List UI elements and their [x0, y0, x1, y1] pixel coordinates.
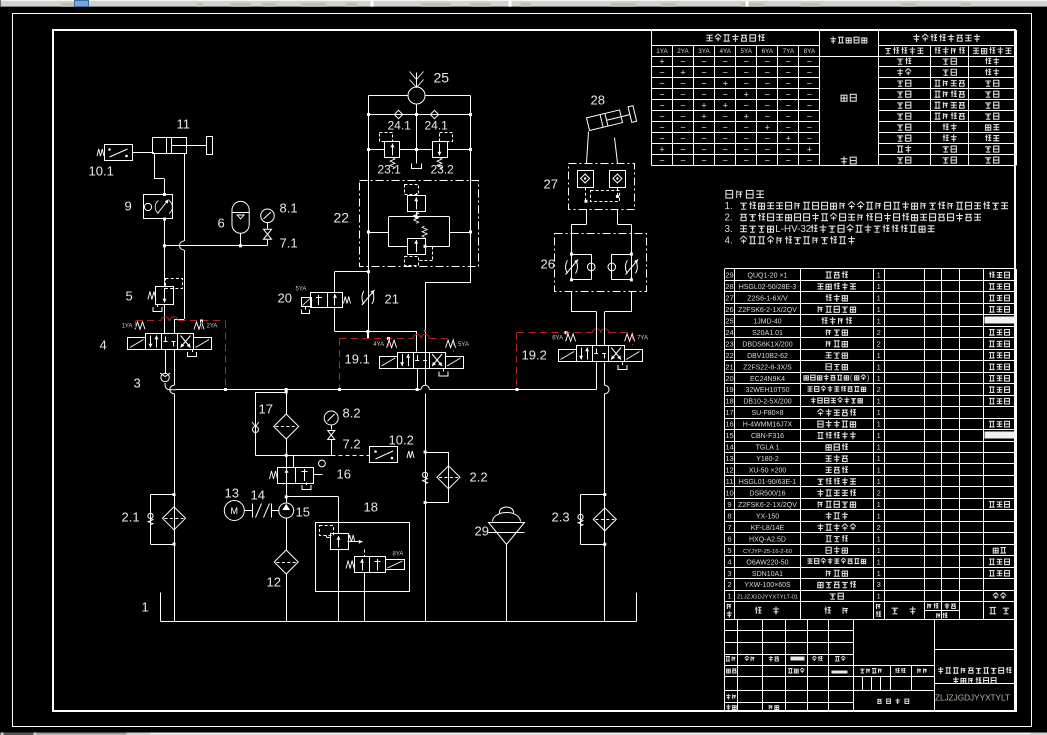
wire box22 right down to 2.2	[470, 267, 472, 283]
svg-text:−: −	[701, 57, 706, 67]
reducing valve in 18	[331, 534, 349, 550]
svg-text:YXW-100×60S: YXW-100×60S	[744, 582, 791, 589]
accumulator 6	[232, 201, 249, 233]
svg-text:1: 1	[877, 454, 881, 463]
gauge 8.2	[324, 411, 338, 425]
hydraulic motor 25	[408, 87, 425, 104]
directional valve 19.2	[577, 346, 625, 362]
svg-text:23.1: 23.1	[378, 163, 402, 177]
gauge valve 7.1	[267, 223, 269, 229]
bridge loop wires	[389, 216, 450, 218]
throttle valve 21	[362, 291, 364, 304]
svg-text:1: 1	[877, 408, 881, 417]
svg-text:8YA: 8YA	[393, 552, 404, 558]
wire valve4 B port down to tank via 2.1	[174, 350, 176, 386]
svg-text:−: −	[659, 134, 664, 144]
svg-text:1: 1	[877, 305, 881, 314]
pump 15	[279, 503, 294, 518]
bridge in box 22: lower relief	[408, 239, 426, 255]
svg-text:21: 21	[385, 292, 399, 307]
svg-text:−: −	[680, 123, 685, 133]
svg-text:2: 2	[877, 523, 881, 532]
svg-text:1.: 1.	[725, 201, 733, 212]
svg-text:−: −	[744, 57, 749, 67]
BOM parts list table	[725, 268, 1017, 270]
filter 2.2 with bypass	[424, 451, 427, 454]
red dashed box 19.2	[517, 332, 593, 334]
svg-text:M: M	[231, 506, 239, 516]
filter 12	[286, 518, 288, 550]
svg-text:23: 23	[725, 339, 733, 348]
svg-text:−: −	[786, 156, 791, 166]
svg-text:1: 1	[877, 294, 881, 303]
svg-text:2.2: 2.2	[470, 470, 488, 485]
svg-text:6: 6	[218, 216, 225, 231]
svg-text:1: 1	[877, 316, 881, 325]
svg-text:+: +	[723, 101, 728, 111]
wire across to 19.1 riser	[369, 331, 418, 333]
svg-text:Z2FSK6-2-1X/2QV: Z2FSK6-2-1X/2QV	[738, 502, 797, 509]
technical requirements text	[726, 190, 733, 198]
svg-text:1: 1	[877, 362, 881, 371]
svg-text:1: 1	[877, 557, 881, 566]
svg-text:5: 5	[727, 546, 731, 555]
svg-text:2: 2	[877, 339, 881, 348]
svg-text:O6AW220-50: O6AW220-50	[746, 559, 788, 566]
svg-text:Z2S6-1-6X/V: Z2S6-1-6X/V	[747, 296, 788, 303]
svg-text:−: −	[701, 156, 706, 166]
svg-text:20: 20	[725, 374, 733, 383]
svg-text:3: 3	[877, 580, 881, 589]
check-throttle valve 9	[144, 195, 173, 219]
svg-text:−: −	[723, 156, 728, 166]
svg-text:−: −	[659, 79, 664, 89]
svg-text:−: −	[786, 101, 791, 111]
svg-text:−: −	[744, 134, 749, 144]
svg-text:−: −	[744, 123, 749, 133]
svg-text:−: −	[701, 123, 706, 133]
svg-text:−: −	[765, 79, 770, 89]
svg-text:−: −	[701, 134, 706, 144]
left throttle-check unit	[570, 253, 573, 256]
dashdot box 22	[360, 181, 479, 267]
svg-text:15: 15	[296, 505, 310, 520]
svg-text:16: 16	[337, 467, 351, 482]
pressure switch 10.2	[370, 447, 398, 463]
check valve 24.1 left	[394, 110, 402, 118]
svg-text:2: 2	[877, 328, 881, 337]
svg-text:−: −	[807, 134, 812, 144]
svg-text:4YA: 4YA	[373, 342, 384, 348]
svg-text:1: 1	[142, 600, 149, 615]
svg-text:TGLA 1: TGLA 1	[756, 445, 780, 452]
svg-text:23.2: 23.2	[431, 163, 455, 177]
bypass loop around valve 20	[335, 271, 369, 273]
svg-text:−: −	[701, 145, 706, 155]
svg-text:1: 1	[877, 397, 881, 406]
svg-text:5YA: 5YA	[458, 342, 469, 348]
svg-text:14: 14	[251, 488, 265, 503]
svg-text:2: 2	[727, 580, 731, 589]
svg-text:21: 21	[725, 362, 733, 371]
electric motor 13	[224, 501, 244, 521]
svg-text:1: 1	[877, 511, 881, 520]
svg-text:5YA: 5YA	[740, 48, 752, 55]
svg-text:SDN10A1: SDN10A1	[752, 571, 783, 578]
wire motor loop top	[369, 95, 409, 97]
svg-text:DBV10B2-62: DBV10B2-62	[747, 353, 788, 360]
svg-text:18: 18	[364, 500, 378, 515]
svg-text:+: +	[659, 57, 664, 67]
throttle check block 26	[555, 234, 647, 292]
pressure switch 10.1	[105, 145, 133, 161]
svg-text:HSGL01-90/63E-1: HSGL01-90/63E-1	[739, 479, 797, 486]
svg-text:27: 27	[544, 177, 558, 192]
svg-text:−: −	[744, 79, 749, 89]
svg-text:QUQ1-20 ×1: QUQ1-20 ×1	[748, 273, 788, 280]
svg-text:+: +	[765, 123, 770, 133]
svg-text:CYJYP-25-16-2-60: CYJYP-25-16-2-60	[743, 549, 792, 555]
svg-text:+: +	[786, 134, 791, 144]
svg-text:−: −	[680, 90, 685, 100]
svg-text:): )	[867, 374, 869, 382]
svg-text:20: 20	[278, 291, 292, 306]
gauge 8.1	[261, 209, 275, 223]
svg-text:−: −	[765, 57, 770, 67]
buffer relief valve 23.1	[385, 142, 400, 158]
svg-text:1: 1	[877, 546, 881, 555]
svg-text:32WEH10T50: 32WEH10T50	[746, 387, 790, 394]
svg-text:8.2: 8.2	[343, 406, 361, 421]
svg-text:7YA: 7YA	[637, 336, 648, 342]
svg-text:−: −	[786, 79, 791, 89]
wire: tank bottom line	[161, 621, 637, 623]
svg-text:19.1: 19.1	[345, 352, 370, 367]
svg-text:19.2: 19.2	[522, 348, 547, 363]
hydraulic lock 27	[569, 164, 635, 210]
svg-text:−: −	[744, 156, 749, 166]
svg-text:−: −	[786, 123, 791, 133]
svg-text:ZLJZJGDJYYXTYLT: ZLJZJGDJYYXTYLT	[935, 694, 1010, 703]
svg-text:H-4WMM16J7X: H-4WMM16J7X	[743, 422, 793, 429]
wire 19.2 T down to 2.3	[604, 363, 606, 386]
gauge valve 7.2	[331, 425, 333, 430]
svg-text:−: −	[765, 134, 770, 144]
svg-text:+: +	[701, 112, 706, 122]
svg-text:17: 17	[259, 402, 273, 417]
svg-text:−: −	[701, 68, 706, 78]
svg-text:−: −	[701, 90, 706, 100]
svg-text:2: 2	[877, 385, 881, 394]
wire 9 down to node	[164, 219, 166, 287]
svg-text:1: 1	[727, 592, 731, 601]
svg-text:−: −	[680, 57, 685, 67]
svg-text:1: 1	[877, 282, 881, 291]
svg-text:−: −	[807, 68, 812, 78]
svg-text:HSGL02-50/28E-3: HSGL02-50/28E-3	[739, 284, 797, 291]
svg-text:EC24N9K4: EC24N9K4	[750, 376, 785, 383]
svg-text:+: +	[744, 112, 749, 122]
svg-text:14: 14	[725, 443, 733, 452]
svg-text:Y180-2: Y180-2	[756, 456, 779, 463]
node on bus at filter17	[285, 388, 288, 391]
svg-text:−: −	[680, 79, 685, 89]
svg-text:24.1: 24.1	[388, 119, 412, 133]
svg-text:1: 1	[877, 477, 881, 486]
svg-text:−: −	[786, 145, 791, 155]
check valve 24.1 right	[430, 110, 438, 118]
svg-text:Z2FS22-8-3X/S: Z2FS22-8-3X/S	[743, 364, 792, 371]
directional valve 4	[146, 334, 194, 350]
svg-text:−: −	[680, 145, 685, 155]
svg-text:6: 6	[727, 534, 731, 543]
svg-text:−: −	[659, 68, 664, 78]
svg-text:4: 4	[727, 557, 731, 566]
tank under valve4	[192, 350, 194, 353]
svg-text:SU-F80×8: SU-F80×8	[751, 410, 783, 417]
svg-text:+: +	[701, 101, 706, 111]
svg-text:DBDS6K1X/200: DBDS6K1X/200	[742, 341, 792, 348]
svg-text:1: 1	[877, 374, 881, 383]
svg-text:1: 1	[877, 271, 881, 280]
tank under valve5	[157, 305, 159, 308]
svg-text:2.3: 2.3	[552, 510, 570, 525]
red dashed box 19.1	[340, 338, 413, 340]
svg-text:7.2: 7.2	[343, 437, 361, 452]
svg-text:12: 12	[725, 466, 733, 475]
filter 17 with bypass check	[286, 439, 288, 456]
svg-text:ZLJZJGDJYYXTYLT-01: ZLJZJGDJYYXTYLT-01	[737, 595, 798, 601]
svg-text:−: −	[786, 90, 791, 100]
svg-text:11: 11	[726, 477, 734, 486]
wires 28 to lock 27	[587, 132, 589, 164]
svg-text:28: 28	[591, 93, 605, 108]
svg-text:1: 1	[877, 534, 881, 543]
svg-text:Z2FSK6-2-1X/2QV: Z2FSK6-2-1X/2QV	[738, 307, 797, 314]
buffer relief valve 23.2	[433, 142, 448, 158]
svg-text:9: 9	[125, 199, 132, 214]
svg-text:1: 1	[877, 351, 881, 360]
wires 26 to 19.2	[571, 292, 573, 312]
svg-text:−: −	[765, 156, 770, 166]
svg-text:−: −	[765, 90, 770, 100]
tank under 19.1	[443, 369, 445, 372]
svg-text:13: 13	[225, 486, 239, 501]
wire to block 18	[287, 496, 339, 498]
title block	[725, 620, 1017, 712]
wire cylinder right port down	[184, 154, 186, 242]
svg-text:−: −	[659, 156, 664, 166]
svg-text:−: −	[807, 123, 812, 133]
red dashed box around valve 4	[136, 320, 161, 322]
toolbar icon	[75, 1, 89, 7]
svg-text:7: 7	[727, 523, 731, 532]
wire pump line horizontal	[287, 455, 332, 457]
svg-text:−: −	[723, 123, 728, 133]
dashed pilot to 10.2	[332, 455, 370, 457]
svg-text:22: 22	[725, 351, 733, 360]
svg-text:1YA: 1YA	[656, 48, 668, 55]
wire box22 left down to valve20	[368, 267, 370, 339]
manual unload valve 16	[293, 456, 295, 468]
svg-text:−: −	[765, 68, 770, 78]
svg-text:17: 17	[725, 408, 733, 417]
svg-text:S20A1.01: S20A1.01	[752, 330, 783, 337]
wire cylinder left port down	[154, 154, 156, 180]
wire motor loop row2	[369, 114, 471, 116]
svg-text:2.1: 2.1	[122, 510, 140, 525]
svg-text:−: −	[701, 79, 706, 89]
svg-text:8: 8	[727, 511, 731, 520]
svg-text:+: +	[723, 79, 728, 89]
svg-text:−: −	[765, 101, 770, 111]
svg-text:6YA: 6YA	[762, 48, 774, 55]
svg-text:3.: 3.	[725, 224, 733, 235]
svg-text:DB10-2-5X/200: DB10-2-5X/200	[743, 399, 791, 406]
svg-text:−: −	[807, 79, 812, 89]
svg-text:−: −	[765, 112, 770, 122]
filter 2.1 with bypass	[173, 493, 176, 496]
svg-text:2YA: 2YA	[677, 48, 689, 55]
svg-text:9: 9	[727, 500, 731, 509]
wire: valve4 outlet arc to bus	[165, 383, 176, 390]
wire motor loop row3	[369, 149, 385, 151]
svg-text:−: −	[680, 134, 685, 144]
wires in 18 to tank	[338, 550, 340, 591]
svg-text:1JMD-40: 1JMD-40	[753, 318, 782, 325]
svg-text:10.1: 10.1	[89, 164, 114, 179]
svg-text:+: +	[680, 68, 685, 78]
svg-text:+: +	[744, 90, 749, 100]
svg-text:10.2: 10.2	[389, 433, 414, 448]
svg-text:−: −	[744, 101, 749, 111]
svg-text:13: 13	[725, 454, 733, 463]
svg-text:26: 26	[541, 257, 555, 272]
svg-text:KF-L8/14E: KF-L8/14E	[751, 525, 785, 532]
status bar bottom	[1, 733, 1047, 735]
svg-text:22: 22	[334, 210, 350, 226]
svg-text:−: −	[807, 112, 812, 122]
svg-text:1: 1	[877, 569, 881, 578]
svg-text:8.1: 8.1	[280, 201, 298, 216]
wire 19.1 bottom to bus	[417, 369, 419, 390]
svg-text:15: 15	[725, 431, 733, 440]
svg-text:CBN-F316: CBN-F316	[751, 433, 784, 440]
svg-text:−: −	[723, 112, 728, 122]
svg-text:−: −	[723, 134, 728, 144]
svg-text:1YA: 1YA	[122, 324, 133, 330]
svg-text:2: 2	[877, 489, 881, 498]
svg-text:4YA: 4YA	[719, 48, 731, 55]
svg-text:16: 16	[725, 420, 733, 429]
svg-text:−: −	[723, 68, 728, 78]
svg-text:24: 24	[725, 328, 733, 337]
svg-text:−: −	[786, 68, 791, 78]
svg-text:−: −	[786, 112, 791, 122]
svg-text:−: −	[807, 101, 812, 111]
svg-text:−: −	[659, 101, 664, 111]
svg-text:10: 10	[725, 489, 733, 498]
svg-text:6YA: 6YA	[552, 336, 563, 342]
svg-text:L-HV-32: L-HV-32	[775, 224, 811, 235]
svg-text:26: 26	[725, 305, 733, 314]
svg-text:+: +	[807, 145, 812, 155]
svg-text:−: −	[765, 145, 770, 155]
svg-text:1: 1	[877, 431, 881, 440]
svg-text:−: −	[807, 156, 812, 166]
svg-text:3: 3	[134, 376, 141, 391]
svg-text:3: 3	[727, 569, 731, 578]
svg-text:4.: 4.	[725, 235, 733, 246]
svg-text:7YA: 7YA	[783, 48, 795, 55]
svg-text:1: 1	[877, 466, 881, 475]
svg-text:−: −	[659, 123, 664, 133]
svg-text:HXQ-A2.5D: HXQ-A2.5D	[749, 536, 786, 543]
svg-text:DSR500/16: DSR500/16	[749, 491, 785, 498]
air breather 29	[493, 513, 521, 522]
cylinder 11 clamp	[153, 138, 187, 154]
toolbar strip top	[1, 1, 1047, 7]
svg-text:YX-150: YX-150	[756, 513, 779, 520]
svg-text:19: 19	[725, 385, 733, 394]
svg-text:−: −	[744, 145, 749, 155]
filter 2.3 with bypass	[603, 493, 606, 496]
solenoid valve 20	[311, 293, 343, 308]
node on bus at valve19.1	[416, 388, 419, 391]
svg-text:−: −	[659, 90, 664, 100]
svg-text:3YA: 3YA	[698, 48, 710, 55]
wire 10.1 to cylinder	[133, 152, 155, 154]
relief valve 5	[164, 286, 166, 288]
wires 27 to 26	[586, 209, 588, 225]
svg-text:XU-50 ×200: XU-50 ×200	[749, 468, 787, 475]
svg-text:−: −	[659, 112, 664, 122]
svg-text:11: 11	[177, 117, 191, 132]
wire: pressure bus P line	[176, 389, 422, 391]
valve block 18	[316, 523, 410, 592]
solenoid valve 8YA in 18	[355, 557, 386, 573]
tank under 19.2	[622, 363, 624, 366]
highlighted cell row15	[985, 432, 1015, 439]
svg-text:−: −	[723, 90, 728, 100]
svg-text:1: 1	[877, 500, 881, 509]
svg-text:1: 1	[877, 420, 881, 429]
right throttle-check unit	[630, 253, 633, 256]
svg-text:+: +	[659, 145, 664, 155]
wire valve5 to valve4	[164, 305, 166, 334]
svg-text:−: −	[807, 90, 812, 100]
solenoid state table	[651, 30, 653, 166]
svg-text:29: 29	[475, 524, 489, 539]
wire accumulator branch	[165, 245, 268, 247]
svg-text:29: 29	[725, 271, 733, 280]
svg-text:5: 5	[126, 289, 133, 304]
tank between 23.1 23.2	[416, 150, 418, 164]
svg-text:8YA: 8YA	[804, 48, 816, 55]
svg-text:7.1: 7.1	[280, 236, 298, 251]
svg-text:−: −	[680, 112, 685, 122]
svg-text:−: −	[723, 145, 728, 155]
highlighted cell row25	[985, 317, 1015, 324]
bridge in box 22: upper relief	[408, 196, 426, 212]
svg-text:12: 12	[267, 575, 281, 590]
svg-text:4: 4	[100, 338, 107, 353]
svg-text:1: 1	[877, 592, 881, 601]
wire 19.2 bottom to bus	[596, 363, 598, 390]
coupling 14	[245, 510, 253, 512]
svg-text:24.1: 24.1	[425, 119, 449, 133]
drawing title text	[938, 667, 944, 674]
